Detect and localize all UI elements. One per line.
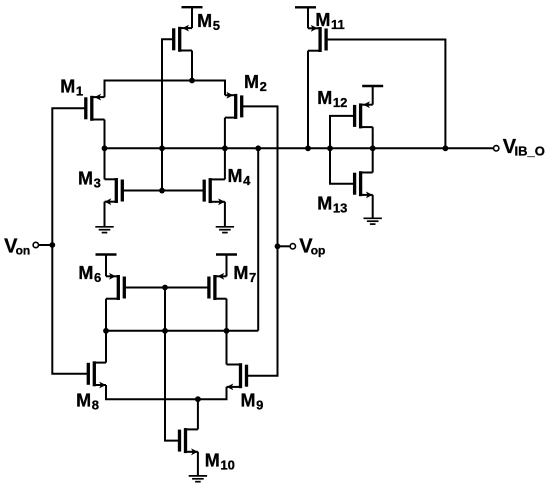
svg-text:M: M (315, 10, 330, 30)
svg-text:M: M (60, 77, 75, 97)
svg-text:M: M (244, 72, 259, 92)
svg-text:7: 7 (249, 270, 256, 285)
svg-text:M: M (241, 390, 256, 410)
svg-text:3: 3 (94, 176, 101, 191)
svg-text:2: 2 (260, 79, 267, 94)
svg-text:11: 11 (331, 17, 345, 32)
svg-text:M: M (197, 11, 212, 31)
svg-text:8: 8 (92, 397, 99, 412)
svg-text:12: 12 (333, 95, 347, 110)
svg-text:13: 13 (333, 200, 347, 215)
svg-text:4: 4 (243, 173, 251, 188)
svg-text:M: M (78, 169, 93, 189)
svg-text:M: M (78, 263, 93, 283)
svg-text:IB_O: IB_O (515, 144, 545, 159)
svg-text:5: 5 (213, 18, 220, 33)
svg-text:op: op (311, 244, 326, 258)
svg-text:M: M (317, 193, 332, 213)
svg-text:10: 10 (220, 458, 234, 473)
svg-text:M: M (205, 451, 220, 471)
svg-text:M: M (233, 263, 248, 283)
svg-text:M: M (76, 390, 91, 410)
svg-text:6: 6 (94, 270, 101, 285)
svg-text:on: on (16, 244, 31, 258)
svg-text:1: 1 (76, 84, 83, 99)
svg-text:M: M (317, 88, 332, 108)
svg-text:M: M (228, 166, 243, 186)
svg-text:9: 9 (256, 397, 263, 412)
